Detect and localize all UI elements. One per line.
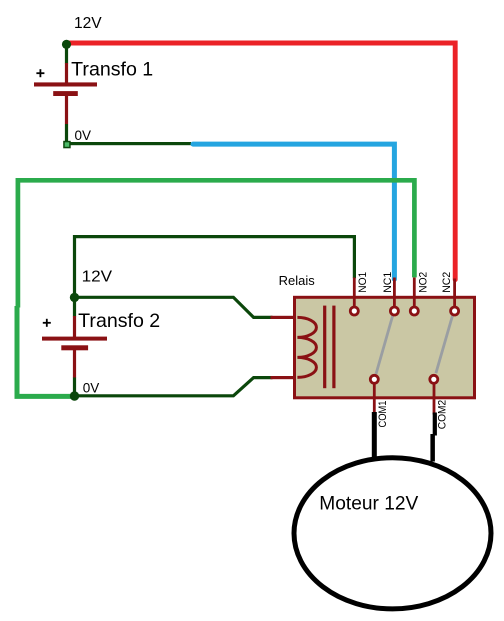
relay RL1 body — [295, 297, 475, 398]
relay pin COM2 — [430, 375, 438, 383]
wire 0V net dark green from Transfo 1 - — [65, 142, 191, 145]
wire dark green from Transfo 2 + up and over to relay pin NO1 — [75, 237, 355, 294]
relay coil stub bottom — [271, 376, 296, 379]
relay pin stub NC1 — [393, 278, 396, 308]
svg-text:NC2: NC2 — [441, 272, 453, 293]
battery Transfo 2 — [42, 297, 107, 396]
svg-text:Moteur 12V: Moteur 12V — [319, 493, 418, 514]
relay pin NO2 — [410, 307, 418, 315]
svg-text:COM2: COM2 — [437, 400, 449, 430]
svg-text:Relais: Relais — [279, 274, 315, 288]
relay pin COM1 — [370, 375, 378, 383]
wire dark green 0V from Transfo 2 - to relay coil bottom — [75, 378, 273, 396]
relay core lines — [323, 306, 326, 389]
relay coil stub top — [271, 316, 296, 319]
svg-text:12V: 12V — [82, 269, 113, 286]
svg-text:NC1: NC1 — [382, 272, 394, 293]
node 0V at Transfo 1 - (bright square) — [64, 142, 70, 148]
motor M1 (Moteur 12V) — [294, 458, 491, 609]
svg-text:Transfo 1: Transfo 1 — [71, 60, 153, 81]
svg-text:0V: 0V — [83, 380, 100, 395]
svg-text:12V: 12V — [74, 15, 102, 32]
node 0V at Transfo 2 - — [70, 391, 79, 400]
relay pin stub COM2 — [433, 384, 436, 415]
plus sign Transfo 1 — [36, 69, 44, 77]
wire dark green 12V from Transfo 2 + to relay coil top — [75, 297, 273, 317]
svg-text:NO1: NO1 — [357, 272, 369, 293]
plus sign Transfo 2 — [43, 319, 51, 327]
relay pin stub COM1 — [373, 384, 376, 416]
relay pin NC1 — [390, 307, 398, 315]
svg-text:NO2: NO2 — [418, 272, 430, 293]
wire bright green lower segment — [17, 306, 77, 396]
node 12V at Transfo 1 + — [62, 40, 71, 49]
wire bright green loop from relay pin NO2 to Transfo 2 0V — [18, 180, 415, 307]
relay pin stub NC2 — [453, 279, 456, 308]
svg-text:Transfo 2: Transfo 2 — [78, 311, 160, 332]
wire black COM2 to motor (with jog) — [433, 413, 437, 436]
relay coil — [297, 317, 316, 377]
svg-text:0V: 0V — [75, 128, 92, 143]
relay switch arm 1 (NC1-COM1) — [376, 316, 393, 374]
relay pin stub NO2 — [413, 278, 416, 308]
battery Transfo 1 — [34, 44, 97, 142]
wire 12V net (red) from Transfo 1 + to relay pin NC2 — [70, 43, 456, 280]
wire blue segment 0V net to relay pin NC1 — [193, 144, 394, 279]
relay pin NC2 — [451, 307, 459, 315]
relay switch arm 2 (NC2-COM2) — [436, 316, 453, 373]
relay pin NO1 — [350, 307, 358, 315]
wire black COM1 to motor — [372, 412, 377, 459]
svg-text:COM1: COM1 — [377, 401, 389, 428]
relay pin stub NO1 — [353, 278, 356, 308]
node 12V at Transfo 2 + — [70, 293, 79, 302]
